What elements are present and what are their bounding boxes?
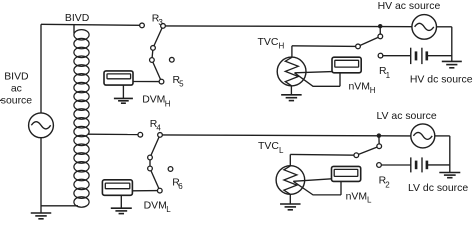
svg-text:L: L xyxy=(367,196,372,205)
svg-text:H: H xyxy=(165,99,171,108)
svg-text:nVM: nVM xyxy=(346,191,367,202)
svg-text:HV ac source: HV ac source xyxy=(378,1,441,12)
svg-text:L: L xyxy=(279,146,284,155)
svg-text:6: 6 xyxy=(178,182,183,191)
svg-text:HV dc source: HV dc source xyxy=(410,74,473,85)
svg-text:ac: ac xyxy=(11,83,22,94)
svg-text:H: H xyxy=(370,86,376,95)
svg-text:5: 5 xyxy=(179,80,184,89)
svg-text:BIVD: BIVD xyxy=(65,13,90,24)
svg-text:L: L xyxy=(166,205,171,214)
svg-text:DVM: DVM xyxy=(144,201,167,212)
svg-text:TVC: TVC xyxy=(258,141,279,152)
svg-text:source: source xyxy=(1,96,33,107)
svg-text:LV dc source: LV dc source xyxy=(408,183,468,194)
svg-text:4: 4 xyxy=(156,124,161,133)
svg-text:TVC: TVC xyxy=(258,37,279,48)
svg-text:BIVD: BIVD xyxy=(4,72,29,83)
svg-text:LV ac source: LV ac source xyxy=(377,111,437,122)
svg-text:1: 1 xyxy=(386,71,391,80)
svg-text:DVM: DVM xyxy=(142,94,165,105)
svg-text:H: H xyxy=(279,42,285,51)
svg-text:3: 3 xyxy=(158,18,163,27)
svg-text:nVM: nVM xyxy=(349,81,370,92)
svg-text:2: 2 xyxy=(385,180,390,189)
